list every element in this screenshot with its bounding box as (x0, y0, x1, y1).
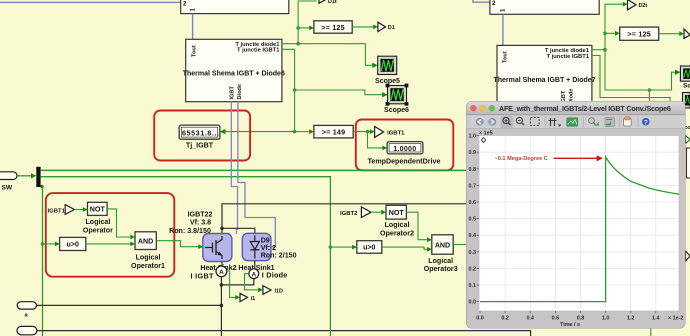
wire black emitter bus down (220, 277, 222, 336)
trace Tj curve (480, 157, 679, 302)
from tag IGBT2 (361, 207, 371, 218)
arrowhead (381, 210, 386, 215)
subsystem B (top-right, cut by top edge) (490, 0, 599, 14)
wire black diode anode link (222, 228, 255, 233)
y tick marks (477, 136, 479, 302)
goto tag IGBT1 (375, 126, 384, 137)
svg-text:T junctie IGBT1: T junctie IGBT1 (237, 48, 280, 54)
node junction a/emitter (220, 304, 224, 308)
svg-text:0.0: 0.0 (469, 300, 477, 306)
svg-text:IGBT1: IGBT1 (387, 130, 405, 136)
svg-text:Sc: Sc (683, 83, 690, 90)
arrowhead (309, 129, 314, 134)
diode D9 (thermal block) (242, 233, 271, 260)
arrowhead (309, 26, 314, 31)
from tag 2 (right edge sliver) (686, 251, 690, 261)
node junction to display branch (366, 130, 370, 134)
junction bar (wide vertical) (36, 167, 40, 187)
arrowhead (198, 244, 203, 249)
svg-text:Tj_IGBT: Tj_IGBT (186, 142, 214, 150)
wire green 149 output to goto IGBT1 (353, 131, 371, 133)
svg-text:0.9: 0.9 (469, 150, 477, 156)
SECTION: scope window (466, 101, 686, 329)
arrowhead (130, 242, 135, 247)
node junction at 125 branch (296, 26, 300, 30)
svg-text:Tout: Tout (192, 45, 198, 57)
svg-text:0.6: 0.6 (552, 315, 560, 321)
icon forward (489, 118, 496, 125)
svg-text:0.5: 0.5 (469, 217, 477, 223)
svg-text:D1: D1 (388, 25, 395, 31)
svg-text:?: ? (644, 119, 648, 126)
svg-text:IGBT: IGBT (229, 86, 235, 100)
svg-text:65531.8...: 65531.8... (182, 128, 219, 137)
svg-text:u>0: u>0 (66, 241, 78, 249)
arrowhead (130, 235, 135, 240)
selection handle bottom-right (405, 102, 409, 106)
wire green down into Scope5 (365, 44, 372, 66)
gridlines horizontal (479, 152, 679, 285)
wire green bus into u>0 (43, 243, 57, 245)
svg-text:SW: SW (2, 185, 13, 192)
annotation box around Logical Operator1 group (46, 193, 175, 277)
wire purple thermal1 IGBT port down (231, 102, 237, 235)
wire purple input to subsystem A port 2 (0, 1, 181, 3)
arrowhead (55, 242, 60, 247)
wire purple thermal1 Diode port down (238, 102, 275, 247)
svg-text:Logical: Logical (85, 218, 110, 226)
svg-text:u>0: u>0 (363, 244, 375, 252)
toolbar separator (582, 117, 584, 128)
svg-text:0.4: 0.4 (526, 315, 534, 321)
from tag IGBT1 (65, 205, 74, 215)
cursor diamond marker (481, 138, 485, 143)
arrowhead (31, 173, 36, 178)
wire black diode return (221, 279, 253, 285)
wire purple subsystem B port1 down to thermal2 Tout (502, 14, 504, 45)
svg-text:0.4: 0.4 (469, 233, 477, 239)
svg-text:IGBT22: IGBT22 (188, 211, 213, 219)
scope Scope5 (378, 56, 397, 74)
svg-text:Logical: Logical (136, 254, 161, 262)
SECTION: top subsystems (0, 0, 599, 45)
SECTION: thermal blocks (183, 39, 596, 107)
svg-text:Thermal Shema IGBT + Diode7: Thermal Shema IGBT + Diode7 (493, 77, 595, 84)
wire green drop under scope window (649, 90, 650, 336)
goto tag I1 (240, 293, 248, 301)
svg-text:I Diode: I Diode (262, 270, 288, 279)
title bar (467, 102, 686, 115)
svg-text:i1: i1 (251, 296, 256, 302)
logical operator NOT (Logical Operator2) (386, 205, 406, 219)
wire green lower bus drop continues to bottom (329, 247, 331, 336)
svg-text:0.3: 0.3 (469, 250, 477, 256)
arrowhead (352, 245, 357, 250)
svg-text:Ron: 3.8/150: Ron: 3.8/150 (169, 227, 211, 235)
icon signal selector (605, 118, 615, 127)
logical operator AND (Logical Operator3) (432, 235, 453, 254)
svg-text:>= 149: >= 149 (322, 128, 346, 137)
wire green AND3 out under scope window (453, 244, 467, 246)
arrowhead (679, 31, 684, 36)
wire green thermal2 diode1 output to riser (592, 49, 605, 51)
svg-text:IGBT1: IGBT1 (48, 208, 66, 214)
svg-text:D1t: D1t (328, 0, 337, 5)
node junction diode anode tap (220, 227, 224, 231)
svg-text:Diode: Diode (237, 84, 243, 100)
svg-text:I IGBT: I IGBT (191, 272, 215, 281)
traffic light close (471, 105, 477, 111)
wire purple into subsystem B port 2 (473, 0, 490, 2)
svg-text:Vf: 2: Vf: 2 (261, 244, 276, 252)
svg-text:Vf: 3.8: Vf: 3.8 (190, 219, 211, 227)
traffic light minimize (480, 105, 486, 111)
arrowhead (83, 207, 88, 212)
logical operator AND (Logical Operator1) (135, 232, 156, 250)
wire green riser up to D2t and down to scope path (605, 4, 624, 90)
display TempDependentDrive (387, 142, 423, 154)
svg-text:Time / s: Time / s (560, 322, 580, 328)
svg-text:AND: AND (435, 241, 450, 249)
arrowhead (427, 247, 432, 252)
node junction right u>0 tap (329, 245, 333, 249)
svg-text:A: A (252, 271, 257, 278)
wire black IGBT emitter to sensor (221, 262, 223, 267)
wire purple subsystem A port1 down to thermal1 Tout (192, 14, 194, 40)
node junction scope6 branch (293, 88, 297, 92)
svg-text:0.0: 0.0 (476, 315, 484, 321)
wire green branch into relational operator >= 125 (298, 27, 310, 29)
svg-text:Logical: Logical (428, 257, 453, 265)
svg-text:Logical: Logical (385, 221, 410, 229)
svg-text:AND: AND (138, 237, 153, 245)
selection handle top-left (386, 84, 390, 88)
arrowhead (675, 70, 680, 75)
icon axes config (549, 118, 562, 127)
svg-text:1.0: 1.0 (469, 134, 477, 140)
arrowhead (370, 129, 375, 134)
gridlines vertical (505, 136, 656, 312)
wire green SW to junction bar (17, 175, 33, 177)
wire green to goto D1 (352, 26, 374, 28)
y axis labels (469, 134, 477, 306)
SECTION: right upper network (592, 0, 690, 336)
icon zoom-box (531, 118, 540, 126)
arrowhead (points left) (220, 129, 226, 134)
scope Scope8 (right edge, partly behind window) (683, 93, 690, 109)
svg-text:× 1e-2: × 1e-2 (668, 315, 683, 321)
arrowhead (382, 92, 387, 97)
icon help (642, 118, 650, 127)
icon clipboard (624, 117, 632, 126)
svg-text:NOT: NOT (389, 209, 405, 217)
port a (oval) (17, 302, 36, 309)
scope Scope7 (right edge) (680, 66, 690, 81)
svg-text:D2t: D2t (639, 3, 648, 9)
x tick marks (480, 311, 656, 313)
sensor I IGBT (ammeter) (216, 266, 227, 277)
wire green from tag to NOT (74, 209, 84, 211)
icon zoom-out (516, 117, 524, 125)
window Scope6 figure (466, 101, 686, 329)
relational operator >= 125 (right) (620, 27, 659, 40)
svg-text:0.6: 0.6 (469, 200, 477, 206)
diode symbol (254, 236, 256, 241)
subsystem Thermal Shema IGBT + Diode7 (497, 45, 592, 107)
wire green branch down to display TempDependentDrive (368, 132, 384, 148)
arrowhead (623, 2, 628, 7)
x axis labels (476, 315, 659, 321)
wire green AND1 out to IGBT gate (156, 241, 199, 247)
svg-text:1.0: 1.0 (602, 315, 610, 321)
IGBT symbol (205, 247, 213, 249)
logical operator NOT (88, 202, 108, 215)
icon back (476, 118, 483, 125)
wire green sensor1 measurement to I1 (227, 271, 237, 297)
wire green thermal1 T junctie diode1 output (282, 43, 366, 45)
goto tag D1 (378, 22, 386, 31)
arrowhead (373, 25, 378, 30)
wire green NOT out to AND upper input (107, 209, 131, 237)
toolbar grip dots (467, 118, 469, 127)
svg-text:1.0000: 1.0000 (393, 146, 416, 153)
arrowhead (615, 31, 620, 36)
svg-text:Operator2: Operator2 (380, 229, 414, 237)
scope Scope6 (selected) (386, 84, 409, 106)
svg-text:0.2: 0.2 (469, 266, 477, 272)
svg-text:>= 125: >= 125 (627, 30, 651, 39)
block (right edge sliver) (687, 148, 690, 178)
svg-text:× 1e5: × 1e5 (479, 131, 493, 137)
svg-text:0.7: 0.7 (469, 183, 477, 189)
selection handle bottom-left (386, 102, 390, 106)
wire black collector bus (to right leg) (222, 204, 467, 234)
SECTION: logic groups (0, 167, 467, 336)
node junction diode1 net (296, 42, 300, 46)
wire green from tag to NOT2 (371, 211, 383, 213)
wire green scope path lower (605, 72, 676, 90)
wire black diode cathode to sensor (254, 261, 256, 269)
wire green bus lower horizontal to drop (41, 177, 331, 247)
from tag (right edge sliver) (686, 136, 690, 144)
wire green branch into relational operator >= 125 (right) (605, 32, 616, 34)
svg-text:IGBT2: IGBT2 (340, 211, 358, 217)
wire green NOT2 out to AND3 upper input (406, 212, 428, 240)
wire green thermal1 T junctie IGBT1 output down (282, 49, 295, 131)
traffic light zoom (489, 105, 495, 111)
wire green into relational operator >= 149 (295, 131, 311, 133)
wire green up to D1t (298, 1, 316, 44)
node junction display/149 (293, 130, 297, 134)
svg-text:1.4: 1.4 (652, 315, 660, 321)
svg-text:AFE_with_thermal_IGBTs/2-Level: AFE_with_thermal_IGBTs/2-Level IGBT Conv… (499, 104, 671, 113)
wire black port a to emitter bus (36, 304, 221, 306)
port b (oval, cut at bottom) (17, 326, 37, 334)
wire green bus into u>0 (right) (330, 246, 353, 248)
icon highlight signal (589, 118, 599, 126)
inport SW (oval, cut at left edge) (0, 172, 17, 180)
toolbar separator (618, 117, 620, 128)
axes plot area (479, 136, 679, 312)
selection handle top-right (405, 84, 409, 88)
svg-text:Operator3: Operator3 (424, 265, 458, 273)
svg-text:TempDependentDrive: TempDependentDrive (368, 157, 441, 165)
svg-text:Operator1: Operator1 (131, 262, 165, 270)
svg-text:NOT: NOT (90, 206, 106, 214)
svg-text:0.8: 0.8 (577, 315, 585, 321)
compare to zero u>0 (60, 237, 86, 250)
wire green thermal2 IGBT1 output path (592, 56, 670, 105)
annotation arrow (554, 157, 599, 159)
display Tj_IGBT (179, 125, 220, 139)
wire green branch to Scope6 (295, 90, 383, 95)
node junction u>0 tap (41, 242, 45, 246)
icon screenshot (green) (567, 118, 578, 126)
SECTION: left green network (282, 0, 409, 132)
node junction at 649 drop (648, 88, 652, 92)
goto tag D2 (cut) (684, 29, 690, 38)
svg-text:Scope6: Scope6 (384, 107, 409, 114)
annotation box around Tj_IGBT (154, 111, 250, 161)
svg-text:0.2: 0.2 (501, 315, 509, 321)
wire green bus upper horizontal (41, 169, 467, 171)
wire green to display Tj_IGBT (leftward) (225, 131, 295, 133)
SECTION: red boxes / displays (154, 111, 453, 171)
node junction bar drop (40, 185, 43, 188)
goto tag D1t (cut by top edge) (319, 0, 326, 3)
svg-text:Tout: Tout (503, 51, 509, 63)
toolbar (467, 115, 686, 129)
compare to zero u>0 (right) (357, 241, 382, 254)
arrowhead (372, 63, 377, 68)
svg-text:Operator: Operator (83, 226, 113, 234)
toolbar separator (544, 117, 546, 128)
svg-text:1.2: 1.2 (627, 315, 635, 321)
svg-text:>= 125: >= 125 (321, 23, 345, 32)
arrowhead (382, 146, 387, 151)
svg-text:I1D: I1D (275, 288, 283, 294)
transistor IGBT22 (thermal block) (203, 234, 232, 262)
relational operator >= 149 (314, 125, 353, 137)
toolbar separator (637, 117, 639, 128)
svg-text:T junctie IGBT1: T junctie IGBT1 (546, 54, 589, 60)
goto tag I1D (263, 286, 271, 295)
wire green bar bottom drop (41, 186, 43, 336)
relational operator >= 125 (left) (314, 21, 352, 33)
wire green u>0 out to AND3 lower input (382, 247, 429, 249)
subsystem A (top-left, cut by top edge) (181, 0, 289, 14)
wire black port b bus across bottom (36, 331, 530, 336)
svg-text:0.8: 0.8 (469, 167, 477, 173)
arrowhead (258, 287, 263, 292)
svg-text:Thermal Shema IGBT + Diode6: Thermal Shema IGBT + Diode6 (183, 70, 285, 77)
node junction (603, 32, 607, 36)
svg-text:~0.1 Mega-Degree C: ~0.1 Mega-Degree C (495, 156, 548, 162)
goto tag D2t (628, 0, 636, 10)
wire green u>0 out to AND lower input (86, 243, 132, 245)
wire green to goto D2 (cut at right edge) (659, 33, 681, 35)
node junction riser (603, 48, 607, 52)
node junction diode return (220, 283, 224, 287)
SECTION: power circuit (17, 102, 531, 336)
wire green sensor2 measurement to I1D (245, 274, 260, 290)
subsystem Thermal Shema IGBT + Diode6 (186, 39, 282, 101)
arrowhead (427, 237, 432, 242)
svg-text:A: A (219, 269, 224, 276)
annotation box TempDependentDrive (356, 120, 454, 171)
icon zoom-in (active) (501, 116, 513, 128)
sensor I Diode (ammeter) (249, 269, 259, 279)
svg-text:0.1: 0.1 (469, 283, 477, 289)
arrowhead (235, 295, 240, 300)
svg-text:Ron: 2/150: Ron: 2/150 (261, 252, 297, 260)
